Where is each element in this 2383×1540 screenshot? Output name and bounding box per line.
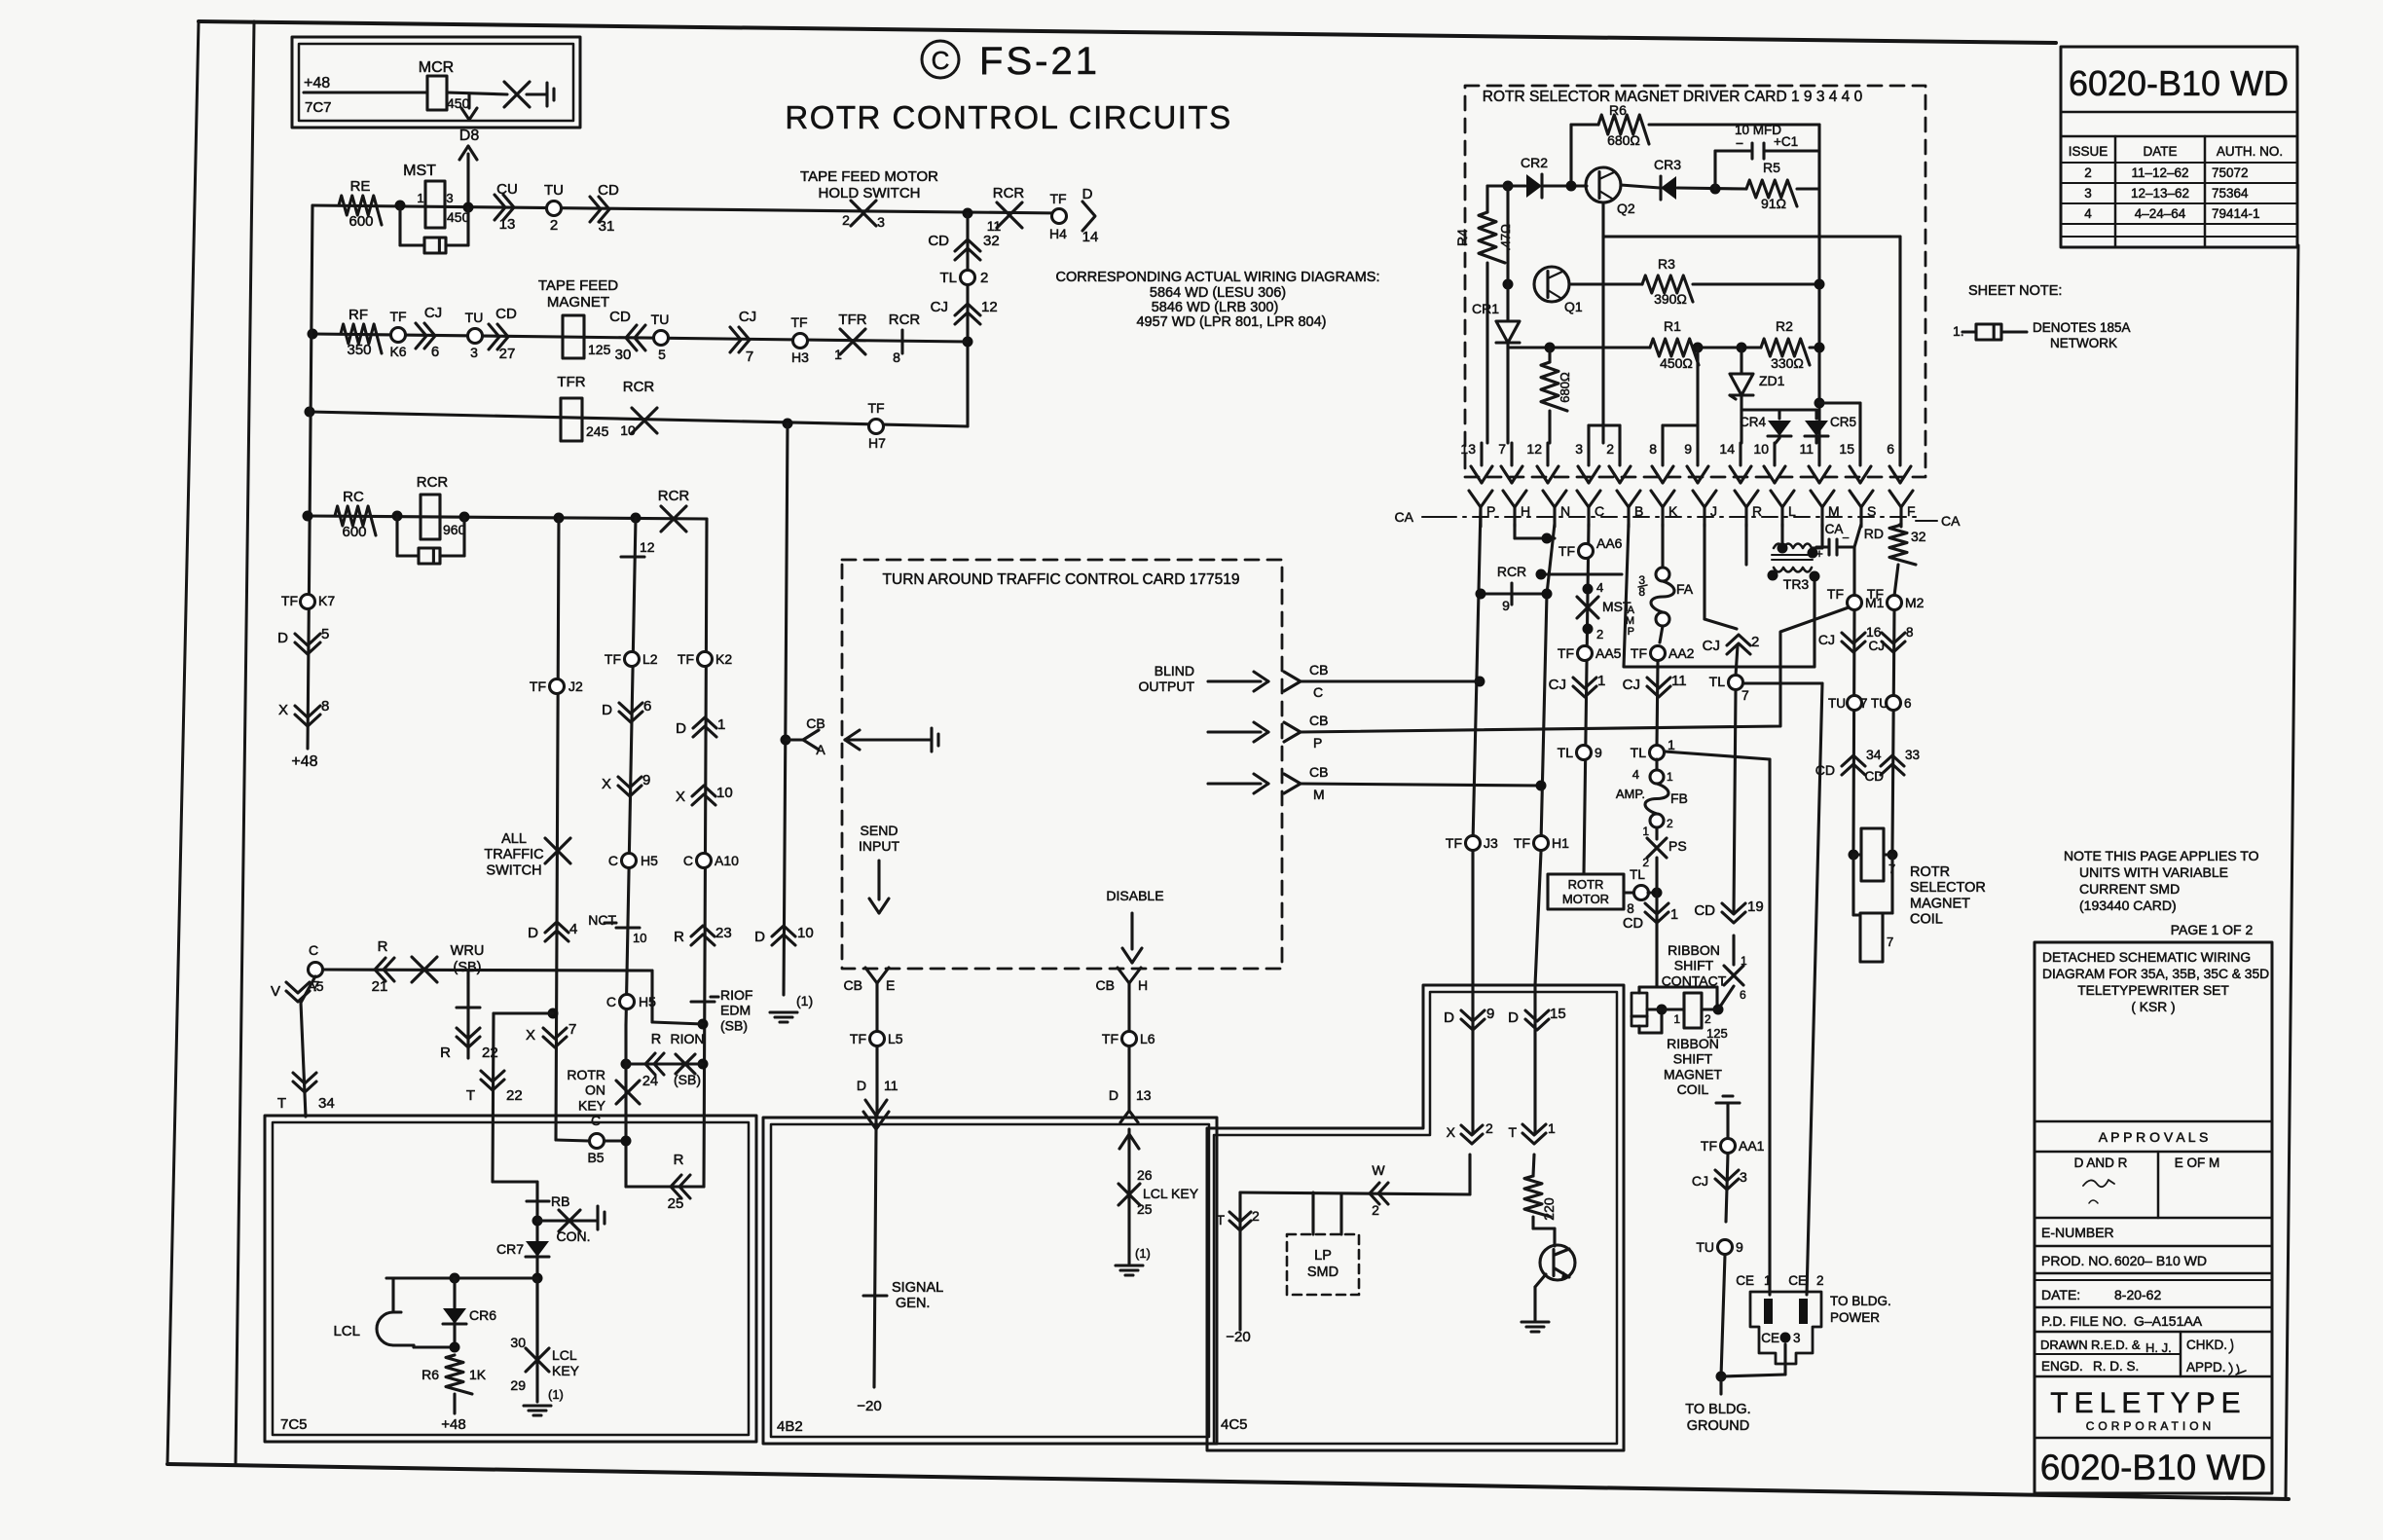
svg-text:2: 2 xyxy=(980,270,988,286)
connector X 2 down 4C5 xyxy=(1461,1134,1483,1144)
resistor 680 vertical xyxy=(1548,348,1551,362)
wire row4 RC horizontal xyxy=(308,516,707,519)
svg-text:680Ω: 680Ω xyxy=(1607,132,1640,148)
svg-text:DATE: DATE xyxy=(2143,144,2177,159)
svg-text:R5: R5 xyxy=(1763,160,1780,175)
svg-text:ROTR: ROTR xyxy=(1910,864,1950,880)
connector CD 34 up xyxy=(1842,755,1865,766)
svg-text:R: R xyxy=(674,929,684,945)
svg-text:COIL: COIL xyxy=(1910,912,1943,928)
connector CJ 3 down xyxy=(1715,1179,1739,1190)
svg-text:21: 21 xyxy=(372,978,388,995)
junction dot pin9 top xyxy=(1693,343,1704,353)
svg-text:SEND: SEND xyxy=(861,823,898,838)
svg-text:DATE:: DATE: xyxy=(2041,1287,2080,1302)
wire pin15 branch xyxy=(1819,401,1860,404)
connector T 34 down xyxy=(293,1082,316,1092)
svg-text:B5: B5 xyxy=(587,1150,604,1165)
contact X RCR 11 xyxy=(997,202,1022,228)
svg-text:CR7: CR7 xyxy=(496,1241,524,1257)
wire network to coil xyxy=(1637,1026,1640,1033)
signature scribble xyxy=(2083,1180,2114,1187)
connector fork R xyxy=(1735,491,1746,507)
connector fork H xyxy=(1503,491,1515,507)
svg-text:CJ: CJ xyxy=(1623,677,1640,693)
pin TF M2 xyxy=(1888,596,1902,610)
svg-text:R4: R4 xyxy=(1454,229,1470,246)
svg-text:10: 10 xyxy=(633,931,646,945)
contact X in MCR box xyxy=(504,82,530,107)
svg-text:TF: TF xyxy=(1558,543,1575,559)
svg-text:E OF M: E OF M xyxy=(2175,1155,2220,1170)
svg-text:MOTOR: MOTOR xyxy=(1562,892,1609,906)
svg-text:450: 450 xyxy=(447,95,470,111)
wire C B5 corner xyxy=(556,1140,589,1141)
svg-text:12: 12 xyxy=(640,539,655,555)
svg-text:1: 1 xyxy=(1673,1012,1680,1026)
wire TL7 branch to CE2 lead xyxy=(1743,681,1822,684)
contact X TFR 1 xyxy=(840,329,865,354)
svg-text:9: 9 xyxy=(1595,745,1602,760)
svg-text:H7: H7 xyxy=(868,435,886,451)
wire WRU jog to RIOF dot xyxy=(650,971,653,1022)
svg-text:ISSUE: ISSUE xyxy=(2069,144,2108,159)
junction dot at B5 xyxy=(621,1136,632,1147)
box 4C5 outer stepped xyxy=(1207,985,1624,1450)
junction dot coil left xyxy=(1657,1005,1668,1015)
junction dot WRU jog xyxy=(698,1019,709,1030)
connector R 22 down xyxy=(457,1037,480,1047)
svg-text:7: 7 xyxy=(1498,441,1506,457)
contact X LCL KEY xyxy=(535,1278,538,1402)
svg-text:TAPE FEED: TAPE FEED xyxy=(538,277,618,294)
svg-text:350: 350 xyxy=(347,342,371,358)
wire CJ2 column xyxy=(1705,619,1737,629)
svg-text:680Ω: 680Ω xyxy=(1558,372,1572,403)
svg-text:CON.: CON. xyxy=(557,1228,591,1244)
pin TF L2 xyxy=(625,652,640,667)
svg-text:13: 13 xyxy=(499,216,516,233)
pin C A5 xyxy=(309,963,323,977)
wire B5 to dot xyxy=(605,1139,626,1142)
wire pin6 branch xyxy=(1603,235,1900,238)
svg-text:5846 WD (LRB 300): 5846 WD (LRB 300) xyxy=(1152,300,1279,315)
resistor RE 600 xyxy=(339,196,382,225)
wire M2 column xyxy=(1892,610,1894,849)
connector fork S xyxy=(1850,491,1861,507)
svg-text:75072: 75072 xyxy=(2212,165,2249,180)
svg-text:LCL KEY: LCL KEY xyxy=(1143,1186,1199,1201)
junction dot TR3 bottom left xyxy=(1768,570,1778,581)
svg-text:1: 1 xyxy=(1668,737,1675,752)
contact X all traffic switch xyxy=(545,838,570,863)
svg-text:TO BLDG.: TO BLDG. xyxy=(1830,1294,1891,1308)
svg-text:34: 34 xyxy=(318,1095,335,1112)
svg-text:450Ω: 450Ω xyxy=(1660,355,1693,371)
wire coil left xyxy=(1647,1008,1684,1010)
svg-text:CU: CU xyxy=(496,181,518,198)
svg-text:T: T xyxy=(277,1095,286,1112)
wire P column to D9 xyxy=(1471,852,1474,985)
wire left vertical x318 xyxy=(308,205,312,749)
connector CJ 2 up xyxy=(1727,635,1750,645)
svg-text:5: 5 xyxy=(658,347,666,362)
svg-text:CR6: CR6 xyxy=(469,1307,496,1323)
svg-text:8: 8 xyxy=(1649,441,1657,457)
arrow up lcl key 26 column xyxy=(1127,1129,1130,1264)
svg-text:A10: A10 xyxy=(715,853,739,868)
svg-text:3: 3 xyxy=(877,214,885,230)
resistor R6 680 xyxy=(1571,123,1598,126)
wire L fork to TR3 xyxy=(1780,524,1783,545)
svg-text:5864 WD (LESU 306): 5864 WD (LESU 306) xyxy=(1150,285,1286,301)
junction dot above R6 xyxy=(450,1342,460,1353)
svg-text:APPD.: APPD. xyxy=(2186,1360,2226,1375)
svg-text:R: R xyxy=(440,1045,451,1061)
wire Q1 to R3 xyxy=(1569,282,1642,285)
svg-text:−20: −20 xyxy=(1226,1329,1250,1345)
pin C A10 xyxy=(697,854,712,868)
fork CB H xyxy=(1118,968,1129,983)
svg-text:CR5: CR5 xyxy=(1830,415,1856,429)
wire bldg ground stub xyxy=(1719,1376,1722,1394)
ground cap symbol MCR xyxy=(545,83,548,106)
dashed box ROTR selector magnet driver card xyxy=(1465,86,1925,477)
wire 4C5 horizontal xyxy=(1240,1192,1470,1194)
svg-text:RIBBON: RIBBON xyxy=(1668,942,1720,958)
svg-text:12–13–62: 12–13–62 xyxy=(2131,186,2189,201)
svg-text:NOTE THIS PAGE APPLIES TO: NOTE THIS PAGE APPLIES TO xyxy=(2064,848,2259,863)
pin TF AA2 xyxy=(1651,646,1666,661)
svg-text:CD: CD xyxy=(1694,902,1715,919)
pin TF K2 xyxy=(698,652,713,667)
svg-text:COIL: COIL xyxy=(1677,1082,1709,1097)
svg-text:DIAGRAM FOR 35A, 35B, 35C &: DIAGRAM FOR 35A, 35B, 35C & 35D xyxy=(2042,967,2269,981)
svg-text:1: 1 xyxy=(1670,907,1678,923)
connector D 9 down xyxy=(1461,1019,1485,1030)
svg-text:(SB): (SB) xyxy=(720,1017,748,1033)
card pin 9 arrow xyxy=(1696,443,1699,465)
junction dot Q1 base xyxy=(1503,279,1514,290)
fuse FA xyxy=(1656,568,1669,581)
svg-text:W: W xyxy=(1372,1162,1385,1178)
svg-text:TF: TF xyxy=(1049,191,1066,206)
junction dot row1 right xyxy=(963,208,973,219)
wire AA1 to CJ3 xyxy=(1726,1154,1728,1222)
resistor RC 600 xyxy=(335,506,376,535)
pin TL 8 xyxy=(1624,891,1633,894)
svg-text:RCR: RCR xyxy=(889,312,921,328)
relay coil MST 450 xyxy=(425,181,445,228)
box 7C5 inner xyxy=(273,1122,749,1435)
wire P column xyxy=(1473,507,1481,843)
svg-text:8: 8 xyxy=(321,698,329,715)
connector X 10 up xyxy=(692,786,715,796)
pin TF L5 xyxy=(870,1032,885,1046)
svg-text:ROTR CONTROL CIRCUITS: ROTR CONTROL CIRCUITS xyxy=(785,99,1231,135)
approvals header xyxy=(2035,1120,2272,1123)
svg-text:2: 2 xyxy=(1816,1273,1824,1288)
svg-text:3: 3 xyxy=(1575,441,1583,457)
svg-text:CJ: CJ xyxy=(1549,677,1566,693)
svg-text:CHKD.: CHKD. xyxy=(2186,1338,2227,1352)
transistor Q 4C5 xyxy=(1540,1245,1575,1280)
svg-text:14: 14 xyxy=(1082,229,1099,245)
pin TL 1 xyxy=(1650,746,1665,760)
svg-text:T: T xyxy=(466,1087,475,1104)
wire LP SMD leads xyxy=(1311,1192,1314,1234)
wire row4 corner down TF K2 column xyxy=(704,519,707,1187)
svg-text:2: 2 xyxy=(1667,817,1673,830)
svg-text:CR1: CR1 xyxy=(1472,301,1499,316)
box 4B2 outer xyxy=(763,1118,1217,1444)
svg-text:TRAFFIC: TRAFFIC xyxy=(484,847,543,862)
contact RIOF EDM bar xyxy=(691,1000,715,1003)
pin TF H4 xyxy=(1052,209,1067,224)
connector R 21 left xyxy=(375,958,385,981)
svg-text:ENGD.: ENGD. xyxy=(2041,1359,2083,1374)
svg-text:4: 4 xyxy=(569,921,577,937)
svg-text:RCR: RCR xyxy=(623,379,655,395)
wire R25 loop xyxy=(624,1181,627,1187)
svg-text:4–24–64: 4–24–64 xyxy=(2135,206,2186,221)
card pin 6 arrow xyxy=(1898,443,1901,465)
svg-text:4B2: 4B2 xyxy=(777,1418,803,1435)
ROTR MOTOR box xyxy=(1548,874,1624,909)
svg-text:10: 10 xyxy=(716,785,733,801)
svg-text:DISABLE: DISABLE xyxy=(1106,888,1163,903)
svg-text:AA5: AA5 xyxy=(1595,645,1622,661)
wire lamp to dot xyxy=(401,1343,414,1346)
fuse FB xyxy=(1655,759,1658,770)
svg-text:TU: TU xyxy=(544,182,564,199)
junction dot coil left lead xyxy=(1849,850,1859,861)
ground LCL KEY xyxy=(524,1404,551,1407)
junction dot row2 right end xyxy=(963,337,973,348)
svg-text:4: 4 xyxy=(2084,206,2092,221)
svg-text:1: 1 xyxy=(1667,770,1673,784)
svg-text:D8: D8 xyxy=(459,128,480,144)
svg-text:TL: TL xyxy=(1558,745,1574,760)
svg-text:RCR: RCR xyxy=(1497,564,1526,579)
pin TF L6 xyxy=(1122,1032,1137,1046)
svg-text:TO BLDG.: TO BLDG. xyxy=(1685,1402,1750,1417)
svg-text:25: 25 xyxy=(1137,1201,1153,1217)
svg-text:10: 10 xyxy=(620,422,636,438)
fork CB M xyxy=(1284,774,1301,784)
svg-text:220: 220 xyxy=(1541,1197,1557,1221)
junction dot CR3 right xyxy=(1710,184,1721,195)
wire R3 to vert xyxy=(1693,282,1819,285)
pin TF K6 xyxy=(391,328,406,343)
connector D 1 up xyxy=(693,717,716,728)
svg-text:TF: TF xyxy=(1102,1031,1118,1046)
svg-text:CB: CB xyxy=(1096,977,1115,993)
connector CU 13 xyxy=(503,195,514,220)
svg-text:7: 7 xyxy=(1741,687,1749,703)
diode CR4 xyxy=(1778,410,1780,419)
svg-text:(1): (1) xyxy=(548,1387,564,1402)
svg-text:LP: LP xyxy=(1314,1248,1332,1264)
arrow blind output M xyxy=(1208,782,1261,785)
connector fork M xyxy=(1811,491,1822,507)
svg-text:TL: TL xyxy=(1709,674,1726,689)
svg-text:600: 600 xyxy=(348,213,373,230)
svg-text:(SB): (SB) xyxy=(674,1072,701,1087)
network 185A below RCR coil xyxy=(395,516,398,556)
svg-text:HOLD SWITCH: HOLD SWITCH xyxy=(819,185,921,202)
connector T 22 down xyxy=(481,1080,504,1090)
svg-text:11: 11 xyxy=(884,1078,898,1093)
wire N column xyxy=(1547,524,1555,594)
svg-text:SHEET NOTE:: SHEET NOTE: xyxy=(1968,283,2062,299)
wire TU9 down to bldg dot xyxy=(1721,1255,1725,1376)
contact signal gen bar xyxy=(863,1294,887,1297)
contact X RION SB xyxy=(676,1054,695,1074)
card pin 3 arrow xyxy=(1587,443,1590,465)
wire L2 column lower xyxy=(624,1025,627,1181)
svg-text:D: D xyxy=(1444,1009,1454,1026)
connector D 15 down xyxy=(1525,1019,1549,1030)
svg-text:RF: RF xyxy=(348,307,368,323)
card pin 12 arrow xyxy=(1546,443,1549,465)
svg-text:10: 10 xyxy=(1753,441,1769,457)
svg-text:32: 32 xyxy=(983,233,1000,249)
relay coil tape feed magnet 125 xyxy=(563,315,584,358)
fork CB C xyxy=(1284,672,1301,681)
connector CD 19 down xyxy=(1722,912,1745,923)
junction dot row4 TF L2 column xyxy=(631,513,642,524)
wire R1 to R2 xyxy=(1699,346,1761,348)
LP SMD dashed box xyxy=(1287,1234,1359,1295)
card pin 8 arrow xyxy=(1661,443,1664,465)
wire lamp row xyxy=(386,1276,537,1279)
svg-text:1: 1 xyxy=(717,716,725,733)
svg-text:POWER: POWER xyxy=(1830,1310,1880,1325)
connector R 23 up xyxy=(691,926,715,936)
svg-text:6: 6 xyxy=(643,698,651,715)
junction dot lamp row xyxy=(450,1273,460,1284)
svg-text:(193440 CARD): (193440 CARD) xyxy=(2079,898,2177,913)
svg-text:CR4: CR4 xyxy=(1740,415,1766,429)
svg-text:INPUT: INPUT xyxy=(859,838,899,854)
svg-text:6: 6 xyxy=(431,344,439,360)
capacitor CA xyxy=(1820,524,1823,547)
pin TL 7 xyxy=(1729,676,1743,690)
svg-text:X: X xyxy=(526,1027,535,1044)
connector CD 27 xyxy=(497,324,508,349)
relay coil ribbon shift 125 xyxy=(1684,993,1702,1028)
pin TF M1 xyxy=(1848,596,1862,610)
junction dot vert CR5 xyxy=(1815,398,1825,409)
svg-text:H4: H4 xyxy=(1049,226,1067,241)
svg-text:D AND R: D AND R xyxy=(2074,1155,2128,1170)
wire T22 branch xyxy=(494,1011,553,1014)
fork CB E xyxy=(865,968,877,983)
svg-text:RC: RC xyxy=(343,489,364,505)
svg-text:75364: 75364 xyxy=(2212,186,2249,201)
wire CR2 to Q2 xyxy=(1544,184,1587,187)
svg-text:4: 4 xyxy=(1596,580,1603,595)
pin C H5 lower xyxy=(620,995,635,1009)
svg-text:CB: CB xyxy=(806,715,825,731)
fork CB P xyxy=(1284,722,1301,732)
svg-text:TFR: TFR xyxy=(838,312,866,328)
svg-text:6020-B10 WD: 6020-B10 WD xyxy=(2069,63,2289,103)
svg-text:E-NUMBER: E-NUMBER xyxy=(2041,1225,2114,1240)
svg-text:H5: H5 xyxy=(641,853,658,868)
svg-text:AA2: AA2 xyxy=(1668,645,1695,661)
svg-text:WRU: WRU xyxy=(451,943,485,959)
svg-text:3: 3 xyxy=(446,191,453,205)
svg-text:6020-B10 WD: 6020-B10 WD xyxy=(2040,1448,2266,1487)
svg-text:11: 11 xyxy=(1671,673,1687,689)
resistor R6 1K xyxy=(446,1355,472,1394)
wire right vertical x1869 xyxy=(1817,125,1820,443)
svg-text:11–12–62: 11–12–62 xyxy=(2131,165,2188,180)
contact X PS xyxy=(1655,827,1658,839)
svg-text:7: 7 xyxy=(746,348,753,365)
svg-text:TU: TU xyxy=(1696,1239,1714,1255)
svg-text:Q1: Q1 xyxy=(1564,299,1583,314)
svg-text:91Ω: 91Ω xyxy=(1761,196,1786,211)
connector fork B xyxy=(1617,491,1629,507)
svg-text:R6: R6 xyxy=(1609,102,1627,118)
svg-text:TF: TF xyxy=(389,309,406,324)
connector CD 30 left xyxy=(626,325,637,350)
wire row1 horizontal xyxy=(312,205,1061,213)
CE pin 2 blade xyxy=(1799,1299,1808,1324)
svg-text:16: 16 xyxy=(1866,624,1882,640)
svg-text:L2: L2 xyxy=(642,651,658,667)
svg-text:CB: CB xyxy=(1309,713,1328,728)
svg-text:CURRENT SMD: CURRENT SMD xyxy=(2079,881,2180,897)
wire coil right xyxy=(1702,1008,1718,1010)
svg-text:TF: TF xyxy=(1631,645,1647,661)
wire column TF L2 x650 xyxy=(626,518,636,1025)
svg-text:TF: TF xyxy=(1701,1138,1717,1154)
svg-text:R.E.D. &: R.E.D. & xyxy=(2091,1338,2141,1352)
svg-text:TF: TF xyxy=(1558,645,1574,661)
svg-text:22: 22 xyxy=(482,1045,498,1061)
svg-text:+: + xyxy=(1815,546,1823,561)
svg-text:1: 1 xyxy=(1597,673,1605,689)
wire contact cluster top xyxy=(1639,985,1657,988)
resistor R4 47 xyxy=(1485,186,1488,212)
network 185A below MST xyxy=(398,205,401,245)
svg-text:P: P xyxy=(1313,735,1322,751)
svg-text:P: P xyxy=(1628,626,1634,638)
svg-text:RION: RION xyxy=(671,1031,705,1046)
junction dot CB C on P xyxy=(1475,677,1485,687)
diode CR5 xyxy=(1815,410,1817,419)
pin TU 2 xyxy=(547,202,562,216)
wire R1 row xyxy=(1508,346,1650,348)
svg-text:23: 23 xyxy=(715,925,732,941)
connector D 6 down xyxy=(619,712,642,722)
svg-text:CD: CD xyxy=(1865,769,1885,784)
contact X ribbon shift 6 xyxy=(1718,986,1734,1009)
fork CB A xyxy=(803,730,819,740)
svg-text:TF: TF xyxy=(790,314,807,330)
arrow into 4B2 xyxy=(865,1100,876,1116)
arrow blind output C xyxy=(1208,679,1261,682)
transistor Q1 xyxy=(1534,267,1569,302)
page border top line xyxy=(199,21,2056,43)
connector D 5 down xyxy=(295,642,320,654)
junction dot MST top xyxy=(1583,584,1594,595)
wire column x808 xyxy=(784,423,788,995)
